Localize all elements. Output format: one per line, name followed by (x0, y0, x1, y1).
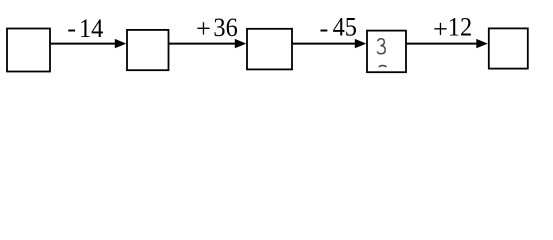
svg-text:12: 12 (448, 11, 472, 41)
box 3 (247, 29, 292, 70)
wire: arrow shaft box1 to box2 (50, 43, 117, 45)
wire: arrow shaft box2 to box3 (169, 43, 237, 45)
svg-text:-: - (320, 13, 329, 43)
box 4 (367, 31, 406, 73)
svg-text:45: 45 (333, 11, 357, 41)
arrowhead into box 5 (476, 39, 488, 48)
box 1 (start box) (7, 29, 50, 72)
svg-text:36: 36 (213, 12, 237, 42)
wire: arrow shaft box4 to box5 (406, 43, 478, 45)
box 5 (end box) (489, 28, 528, 68)
label "- 14" (67, 13, 103, 43)
label "+ 12" (433, 11, 472, 43)
svg-text:+: + (196, 13, 211, 43)
svg-text:14: 14 (79, 13, 104, 43)
label "+ 36" (196, 12, 238, 43)
partial digit stroke (clipped arc) in box 4 (379, 65, 387, 67)
arrowhead into box 3 (235, 39, 247, 48)
wire: arrow shaft box3 to box4 (292, 43, 357, 45)
value "3" written in box 4 (377, 39, 385, 54)
label "- 45" (320, 11, 357, 43)
svg-text:+: + (433, 13, 448, 43)
arrowhead into box 4 (355, 39, 367, 48)
svg-text:-: - (67, 13, 76, 43)
arrowhead into box 2 (115, 39, 127, 48)
box 2 (127, 30, 169, 70)
